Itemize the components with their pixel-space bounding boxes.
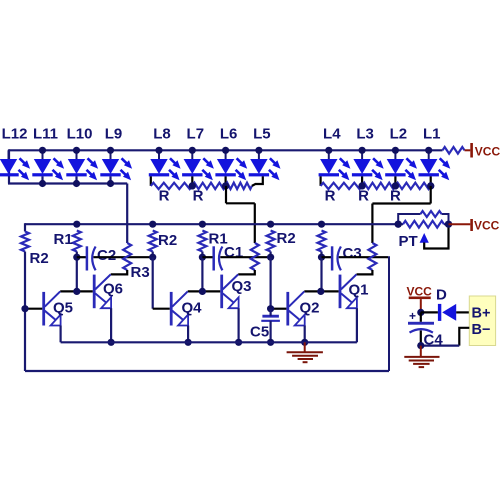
- svg-text:Q1: Q1: [349, 282, 369, 299]
- resistor R (L8): [151, 183, 193, 189]
- wire: group3 tap down: [430, 186, 432, 204]
- wire: B- elbow: [459, 328, 469, 346]
- wire: group2 tap to R3: [254, 203, 256, 243]
- resistor (PT top): [421, 211, 442, 217]
- wire: C2 in: [77, 256, 87, 258]
- resistor R2 (cell1): [21, 232, 29, 252]
- junction on group1 cathode rail: [73, 180, 80, 187]
- svg-text:L11: L11: [33, 126, 58, 143]
- wire: L4 cathode elbow: [320, 176, 322, 186]
- junction on anode rail: [222, 147, 229, 154]
- junction C4/B-: [417, 342, 424, 349]
- junction R2 cell2 top: [149, 221, 156, 228]
- junction under L1: [427, 182, 434, 189]
- svg-text:L5: L5: [253, 126, 271, 143]
- ground (C4): [404, 346, 439, 368]
- junction under L2 (top): [392, 182, 399, 189]
- junction under L2: [392, 182, 399, 189]
- LED L11: [32, 150, 64, 180]
- svg-text:VCC: VCC: [474, 219, 500, 233]
- wire: Q4 base stub: [153, 308, 170, 310]
- wire: R1 lead: [320, 252, 322, 258]
- wire: R2 lead: [152, 252, 154, 258]
- wire: L5 cathode elbow: [252, 176, 263, 186]
- LED L1: [419, 150, 451, 180]
- transistor Q2: [286, 291, 304, 325]
- wire: group3 tap across: [372, 202, 430, 204]
- wire: L1 cathode stub: [430, 176, 432, 186]
- svg-text:PT: PT: [399, 233, 418, 250]
- junction collector cell1: [73, 288, 80, 295]
- wire: L2 cathode stub: [394, 176, 396, 186]
- wire: PT top loop left: [398, 214, 420, 224]
- svg-text:C4: C4: [424, 332, 444, 349]
- junction R2/C1 out: [267, 254, 274, 261]
- svg-text:C5: C5: [250, 324, 269, 341]
- wire: emitter rail: [61, 341, 357, 343]
- transistor Q5: [42, 291, 60, 325]
- resistor (LED supply): [443, 147, 465, 154]
- junction R1/C2: [73, 254, 80, 261]
- wire: Q3 emitter drop: [238, 308, 240, 342]
- svg-text:Q6: Q6: [103, 281, 123, 298]
- svg-text:L4: L4: [323, 126, 341, 143]
- wire: Q4 collector to Q3 base: [188, 290, 221, 292]
- junction under L3: [359, 182, 366, 189]
- svg-text:C3: C3: [343, 245, 362, 262]
- transistor Q3: [220, 274, 238, 308]
- junction under L6 (top): [222, 182, 229, 189]
- junction emitter rail Q4: [185, 339, 192, 346]
- junction on anode rail: [425, 147, 432, 154]
- junction on anode rail: [189, 147, 196, 154]
- svg-text:L12: L12: [2, 126, 28, 143]
- junction collector cell2: [199, 288, 206, 295]
- wire: VCC down (red): [420, 299, 422, 312]
- junction on anode rail: [392, 147, 399, 154]
- wire: R1 junction to collector: [201, 257, 203, 291]
- wire: R3 cell3 bottom elbow: [357, 270, 373, 274]
- wire: R1 lead: [201, 252, 203, 258]
- wire: to diode: [421, 311, 438, 313]
- potentiometer PT element: [403, 221, 444, 228]
- junction PT right (top): [445, 221, 452, 228]
- svg-text:B−: B−: [472, 322, 491, 338]
- svg-text:D: D: [436, 287, 447, 304]
- wire: C5 top lead: [270, 309, 272, 317]
- wire: Q2 base stub: [271, 308, 287, 310]
- wire: base-bias rail: [25, 223, 398, 225]
- junction R1/C1: [199, 254, 206, 261]
- wire: Q5 base stub: [25, 308, 42, 310]
- junction emitter rail Q2/ground: [301, 339, 308, 346]
- wire: Q1 emitter drop: [356, 308, 358, 342]
- junction PT right: [445, 221, 452, 228]
- wire: cathode stub: [109, 176, 111, 183]
- junction PT left: [395, 221, 402, 228]
- wire: Q4 emitter drop: [187, 326, 189, 343]
- wire: Q5 emitter drop: [59, 326, 61, 343]
- VCC bar (PT): [470, 219, 473, 231]
- wire: feedback down: [388, 257, 389, 371]
- wire: Q2 emitter drop: [304, 326, 306, 343]
- junction Q5 base: [21, 305, 28, 312]
- junction on anode rail: [39, 147, 46, 154]
- transistor Q6: [93, 274, 111, 308]
- svg-text:R2: R2: [277, 230, 296, 247]
- resistor R2 (cell2): [149, 231, 157, 252]
- resistor R3 (cell2): [251, 243, 259, 270]
- wire: to Q2 base: [270, 257, 272, 309]
- svg-text:L8: L8: [153, 126, 171, 143]
- junction on anode rail: [73, 147, 80, 154]
- svg-text:B+: B+: [472, 306, 491, 322]
- svg-text:R: R: [159, 188, 170, 205]
- wire: group2 tap down: [225, 186, 227, 203]
- junction on anode rail: [255, 147, 262, 154]
- svg-text:Q2: Q2: [300, 300, 320, 317]
- wire: R2 to Q5 base / bottom loop: [24, 252, 26, 372]
- wire: group3 tap to R3: [371, 204, 373, 244]
- junction R2/C2 out: [149, 254, 156, 261]
- wire: L3 cathode stub: [361, 176, 363, 186]
- svg-text:VCC: VCC: [475, 144, 500, 158]
- wire: B- return: [421, 345, 460, 347]
- wire: PT left lead: [398, 223, 403, 225]
- svg-text:C2: C2: [97, 247, 116, 264]
- svg-text:L3: L3: [356, 126, 374, 143]
- wire: Q6 emitter drop: [110, 308, 112, 342]
- junction R2 cell3 top: [267, 221, 274, 228]
- wire: R1 junction to collector: [76, 257, 78, 291]
- svg-text:Q5: Q5: [53, 300, 73, 317]
- LED L3: [352, 150, 384, 180]
- VCC bar (top right): [470, 143, 473, 158]
- resistor R2 (cell3): [267, 231, 275, 252]
- svg-text:L6: L6: [220, 126, 238, 143]
- capacitor C1: [214, 246, 223, 270]
- wire: LED anode supply rail: [9, 149, 443, 151]
- wire: group1 cathode rail drop to R3: [126, 184, 128, 244]
- LED L4: [319, 150, 351, 180]
- resistor R3 (cell1): [123, 243, 131, 270]
- svg-text:L1: L1: [423, 126, 441, 143]
- wire: L6 cathode stub: [225, 176, 227, 186]
- resistor R (L2): [395, 183, 430, 189]
- wire: left border of LED group 1: [8, 149, 10, 183]
- wire: LED group 1 cathode rail: [8, 182, 127, 184]
- wire: C2 out to R2 cell2: [94, 256, 153, 258]
- wire: PT wiper loop: [424, 224, 448, 248]
- wire: Q5 collector to Q6 base: [60, 290, 93, 292]
- resistor R1 (cell3): [318, 231, 326, 252]
- junction under L6: [222, 182, 229, 189]
- junction PT left (top): [395, 221, 402, 228]
- junction emitter rail C5: [267, 339, 274, 346]
- svg-text:L10: L10: [67, 126, 93, 143]
- LED L8: [149, 150, 181, 180]
- diode D: [438, 304, 456, 321]
- transistor Q4: [170, 291, 188, 325]
- junction emitter rail Q6: [108, 339, 115, 346]
- junction under L1 (top): [427, 182, 434, 189]
- junction on anode rail: [155, 147, 162, 154]
- PT wiper arrow: [420, 233, 429, 243]
- svg-text:R3: R3: [131, 264, 150, 281]
- resistor R (L7): [192, 183, 225, 189]
- ground (emitter rail): [287, 342, 323, 362]
- junction under L7 (top): [189, 182, 196, 189]
- LED L9: [100, 150, 132, 180]
- junction on group1 cathode rail: [39, 180, 46, 187]
- wire: L8 cathode elbow: [150, 176, 152, 186]
- wire: C1 in: [202, 256, 213, 258]
- transistor Q1: [339, 274, 357, 308]
- resistor R (L6): [226, 183, 252, 189]
- svg-text:R: R: [358, 188, 369, 205]
- capacitor C5: [261, 316, 280, 321]
- junction under L3 (top): [359, 182, 366, 189]
- wire: C4 top lead: [420, 312, 422, 321]
- junction under L7: [189, 182, 196, 189]
- LED L6: [215, 150, 247, 180]
- VCC bar (supply): [409, 297, 431, 300]
- junction on anode rail: [107, 147, 114, 154]
- resistor R1 (cell2): [198, 231, 206, 252]
- junction on anode rail: [325, 147, 332, 154]
- LED L10: [66, 150, 98, 180]
- wire: rail to VCC (red): [449, 223, 471, 225]
- svg-text:C1: C1: [224, 244, 243, 261]
- wire: R1 lead: [76, 252, 78, 258]
- junction emitter rail Q3: [235, 339, 242, 346]
- svg-text:L2: L2: [390, 126, 408, 143]
- LED L7: [182, 150, 214, 180]
- wire: C5 bottom lead: [270, 321, 272, 343]
- wire: R3 bottom elbow: [111, 270, 128, 274]
- svg-text:VCC: VCC: [407, 284, 433, 298]
- wire: to Q4 base: [152, 257, 154, 309]
- wire: cathode stub: [41, 176, 43, 183]
- svg-text:R: R: [325, 188, 336, 205]
- junction Q2 base / C5: [267, 305, 274, 312]
- svg-text:Q3: Q3: [232, 278, 252, 295]
- junction on anode rail: [359, 147, 366, 154]
- LED L12: [0, 150, 30, 180]
- resistor R3 (cell3): [368, 243, 376, 270]
- resistor R (L4): [321, 183, 363, 189]
- svg-text:+: +: [409, 309, 416, 323]
- junction VCC/C4/diode: [417, 309, 424, 316]
- wire: C4 bottom lead: [420, 331, 422, 346]
- wire: R1 junction to collector: [320, 257, 322, 291]
- wire: group2 tap across: [226, 202, 255, 204]
- wire: rail left drop: [24, 223, 26, 231]
- wire: C3 out (feedback): [339, 256, 388, 258]
- wire: C3 in: [322, 256, 333, 258]
- capacitor C3: [332, 246, 341, 270]
- wire: R2 lead: [270, 252, 272, 258]
- svg-text:L7: L7: [187, 126, 205, 143]
- LED L5: [249, 150, 281, 180]
- wire: Q2 collector to Q1 base: [304, 290, 338, 292]
- wire: diode to B+: [456, 311, 469, 313]
- LED L2: [385, 150, 417, 180]
- wire: bottom loop: [25, 370, 389, 372]
- resistor R (L3): [362, 183, 395, 189]
- junction R1/C3: [318, 254, 325, 261]
- svg-text:R: R: [390, 188, 401, 205]
- svg-text:R: R: [193, 188, 204, 205]
- svg-text:L9: L9: [105, 126, 123, 143]
- resistor R1 (cell1): [73, 231, 81, 252]
- wire: R3 cell2 bottom elbow: [238, 270, 255, 274]
- wire: L7 cathode stub: [191, 176, 193, 186]
- battery terminal box: [469, 296, 495, 346]
- wire: C1 out to R2 cell3: [220, 256, 270, 258]
- svg-text:R1: R1: [54, 231, 73, 248]
- svg-text:R2: R2: [158, 232, 177, 249]
- junction on group1 cathode rail: [107, 180, 114, 187]
- wire: to VCC (red): [465, 149, 471, 151]
- svg-text:Q4: Q4: [182, 300, 203, 317]
- capacitor C4: [408, 322, 434, 333]
- junction R1 cell1 top: [73, 221, 80, 228]
- svg-text:R2: R2: [30, 250, 49, 267]
- junction collector cell3: [317, 288, 324, 295]
- junction R1 cell3 top: [318, 221, 325, 228]
- wire: cathode stub: [75, 176, 77, 183]
- capacitor C2: [87, 246, 96, 270]
- wire: PT top loop right: [442, 214, 449, 224]
- junction R1 cell2 top: [199, 221, 206, 228]
- wire: PT right lead: [444, 223, 449, 225]
